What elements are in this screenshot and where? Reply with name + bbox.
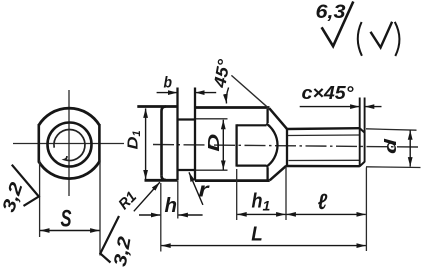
svg-text:6,3: 6,3 [316,2,346,23]
left view: vertical centerline [68,90,70,196]
left view: S extension line left [39,160,41,237]
svg-text:c×45°: c×45° [302,83,355,103]
D top extension line [196,118,228,120]
cylinder right face bottom [266,167,268,180]
left view: head outer contour (circle with flats) [39,108,100,178]
45 degree arc arrow [226,88,228,104]
end face / c extension [364,98,366,163]
dimension d [409,130,411,166]
dimension l [286,213,365,215]
left view: middle circle (body diameter D) [48,123,92,167]
d bottom extension [366,166,421,169]
parenthesis right [395,22,400,56]
cone top edge [269,108,287,129]
leader r [189,172,203,205]
leader R1 [134,182,160,211]
thread start face [286,129,288,166]
left view: S extension line right [99,160,101,256]
parenthesis left [358,22,362,56]
svg-text:d: d [381,138,400,154]
dimension c x 45 [300,106,360,108]
head left face [162,107,167,176]
h1 / l extension line at cone base [236,169,238,220]
d top extension [366,129,417,130]
dimension D [222,120,224,170]
roughness check mark large [322,2,354,47]
left view: flat right (S) [98,124,101,163]
h1 / l extension line at thread start [285,167,287,221]
cylinder right face top [266,109,268,123]
svg-text:b: b [164,75,173,92]
groove left wall / b extension [176,88,178,181]
dimension S [40,230,100,232]
head top edge + D1 top extension [137,105,177,108]
side view: axis centerline [153,145,418,148]
roughness check mark small [371,22,393,48]
chamfer line / c extension [359,98,361,167]
L right extension line [365,168,367,252]
dimension h1 [237,213,285,215]
top edge right of groove [195,106,270,109]
thread minor top [288,134,360,137]
thread minor bottom [289,159,360,161]
flat top edge [237,124,267,126]
left view: horizontal centerline [13,143,124,145]
svg-text:D: D [206,133,223,152]
svg-text:L: L [251,223,262,245]
groove right wall / b extension [194,88,196,181]
45 degree chamfer leader line [231,75,269,108]
dimension D1 [145,108,147,179]
chamfer slant top [360,128,365,132]
groove bottom (bottom side) [177,169,197,171]
dimension h [139,214,160,216]
bottom edge right of groove [195,179,270,182]
flat left edge [235,124,237,166]
dimension L [161,245,366,247]
thread major top [287,127,360,130]
svg-text:ℓ: ℓ [318,189,328,214]
D bottom extension line [196,169,228,171]
dimension b [157,92,178,94]
svg-text:S: S [61,206,72,233]
chamfer slant bottom [360,162,365,166]
h extension line (groove left wall extended) [177,181,179,219]
thread major bottom [286,165,360,168]
svg-text:h: h [165,195,178,217]
left view: flat left (S) [37,124,40,163]
head bottom edge + D1 bottom extension [145,179,178,182]
flat-cone intersection arc [266,124,277,167]
left view: thread circle 3/4 arc [54,129,85,160]
groove bottom (top side) [177,118,197,120]
svg-text:r: r [199,180,211,202]
cone bottom edge [270,166,287,181]
roughness 3,2 right [100,216,119,263]
L left extension line [160,183,162,252]
roughness 3,2 left [12,165,39,206]
flat bottom edge [237,165,267,167]
